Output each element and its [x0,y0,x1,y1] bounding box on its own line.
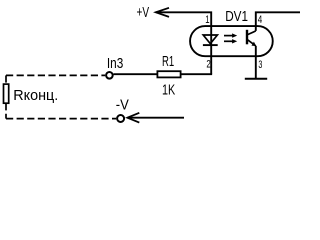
svg-text:Rконц.: Rконц. [13,88,58,104]
svg-text:In3: In3 [107,56,123,72]
pin 3 terminal bar [245,78,267,80]
wire pin 4 collector to top right edge [256,12,300,31]
wire pin 3 emitter down [255,46,257,79]
wire R1 to pin 2 [181,73,213,75]
wire dashed bottom (external loop to -V) [6,118,116,120]
wire dashed left vertical lower [5,103,7,118]
svg-text:1K: 1K [162,82,175,98]
svg-text:R1: R1 [162,54,174,70]
svg-text:+V: +V [137,5,150,21]
LED triangle (anode) [203,35,217,44]
emitter arrow head [252,42,257,47]
wire dashed top (external loop to In3) [6,74,105,76]
-V arrow head [127,113,139,123]
+V arrow head [156,8,169,17]
emitter diagonal [248,40,256,46]
svg-text:4: 4 [258,14,263,26]
light arrow lower [224,40,234,42]
svg-text:-V: -V [116,97,129,113]
LED cathode bar [203,44,218,46]
phototransistor base bar [246,30,248,45]
collector diagonal [248,31,256,35]
wire +V to pin 1 and LED through-lead down to R1 wire [156,12,211,74]
wire -V arrow shaft [127,117,184,119]
resistor R1 [157,71,180,77]
node -V terminal circle [117,115,124,122]
node In3 terminal circle [106,72,113,79]
svg-text:1: 1 [205,14,209,26]
optocoupler DV1 body [190,26,273,56]
svg-text:DV1: DV1 [225,9,248,25]
wire dashed left vertical upper [5,75,7,84]
resistor Rконц. [4,84,9,103]
svg-text:2: 2 [206,58,210,70]
svg-text:3: 3 [258,59,262,71]
wire In3 to R1 [114,73,158,75]
light arrow upper [224,35,234,37]
